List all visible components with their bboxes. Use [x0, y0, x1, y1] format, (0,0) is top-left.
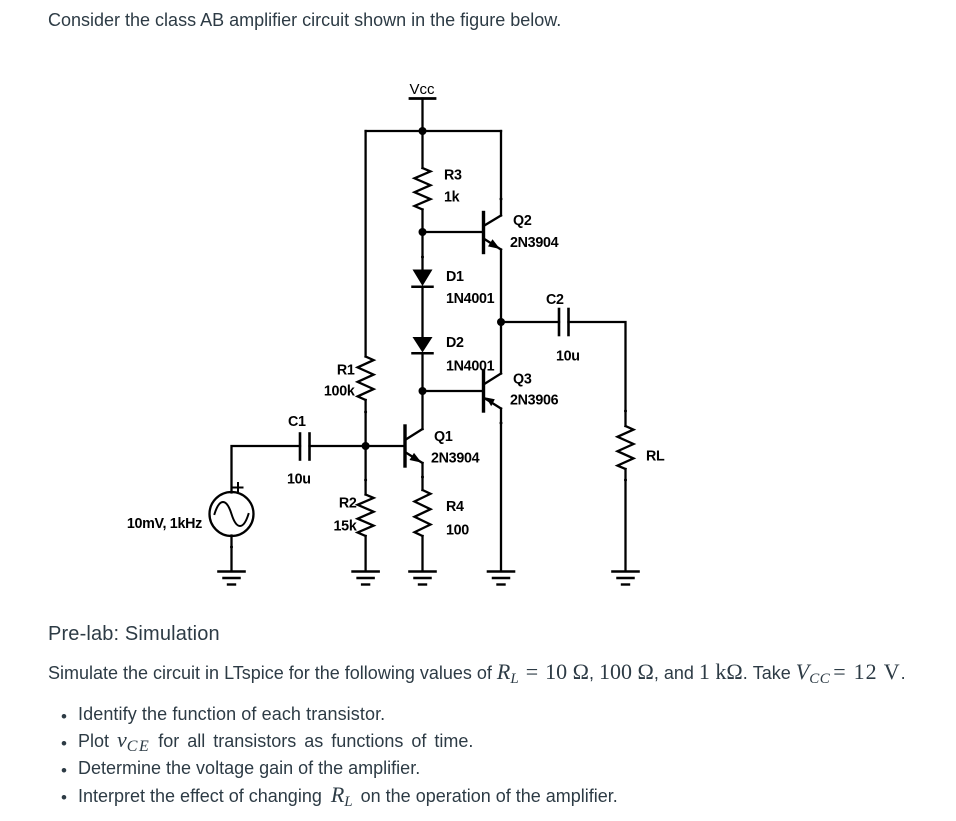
node bias lower (D2/Q3 base/Q1 collector) [419, 387, 427, 395]
wire RL to ground [624, 469, 626, 571]
wire lower bias node to Q1 collector [421, 391, 423, 429]
svg-text:15k: 15k [334, 519, 357, 535]
wire Vcc junction to R3 [421, 131, 423, 168]
capacitor C1 [287, 414, 311, 488]
svg-text:R1: R1 [337, 363, 355, 379]
svg-text:R2: R2 [339, 496, 357, 512]
svg-text:1N4001: 1N4001 [446, 291, 495, 307]
resistor RL [618, 426, 666, 469]
wire source to C1 [232, 446, 301, 493]
svg-text:1N4001: 1N4001 [446, 359, 495, 375]
paragraph Simulate the circuit [48, 661, 906, 683]
ground below R4 [410, 572, 436, 585]
title paragraph [48, 11, 561, 29]
wire source to ground [230, 536, 232, 572]
wire D2 to lower bias node [421, 353, 423, 391]
resistor R1 [324, 357, 374, 401]
wire R4 to ground [421, 536, 423, 571]
wire R1 to input node [364, 400, 366, 446]
svg-text:2N3904: 2N3904 [510, 235, 559, 251]
ground below R2 [353, 572, 379, 585]
resistor R3 [415, 168, 463, 210]
plus sign of source [234, 483, 243, 492]
wire R3 to bias node [421, 210, 423, 233]
wire Q2 emitter to output node [500, 250, 502, 323]
wire output node to Q3 emitter [500, 322, 502, 374]
diode D2 [413, 335, 495, 375]
ground below source [219, 572, 245, 585]
svg-text:1k: 1k [444, 190, 460, 206]
node Vcc rail junction [419, 127, 427, 135]
capacitor C2 [546, 292, 580, 365]
svg-text:10mV, 1kHz: 10mV, 1kHz [127, 516, 202, 532]
transistor Q2 2N3904 [484, 213, 559, 253]
wire left drop to R1 [364, 131, 366, 357]
svg-text:2N3904: 2N3904 [431, 451, 480, 467]
node bias upper (R3/D1/Q2 base) [419, 228, 427, 236]
node output [497, 318, 505, 326]
svg-text:Q2: Q2 [513, 213, 532, 229]
wire C2 to RL corner [569, 322, 626, 426]
wire R2 to ground [364, 536, 366, 571]
source V1 10mV 1kHz [127, 492, 254, 536]
svg-text:Q3: Q3 [513, 372, 532, 388]
wire output node to C2 [501, 321, 559, 323]
wire Q3 base [423, 390, 484, 392]
svg-text:100k: 100k [324, 384, 355, 400]
svg-text:C1: C1 [288, 414, 306, 430]
svg-text:10u: 10u [556, 349, 580, 365]
wire D1 to D2 [421, 287, 423, 337]
wire top rail [366, 130, 501, 132]
wire input node to R2 [364, 446, 366, 495]
heading Pre-lab: Simulation [48, 624, 220, 644]
wire Q2 base [423, 231, 484, 233]
svg-text:D1: D1 [446, 269, 464, 285]
svg-text:D2: D2 [446, 335, 464, 351]
svg-text:100: 100 [446, 523, 469, 539]
svg-text:Q1: Q1 [434, 429, 453, 445]
ground below Q3 [488, 572, 514, 585]
transistor Q1 2N3904 [366, 426, 480, 467]
resistor R2 [334, 495, 374, 537]
diode D1 [413, 269, 495, 307]
svg-text:R3: R3 [444, 168, 462, 184]
wire Q3 collector to ground [500, 409, 502, 572]
wire bias node to D1 [421, 232, 423, 270]
bullet list [61, 708, 67, 725]
resistor R4 [415, 490, 470, 539]
wire C1 to input node [310, 445, 366, 447]
svg-text:RL: RL [646, 449, 665, 465]
wire Vcc stem [421, 99, 423, 132]
power symbol Vcc [409, 81, 435, 99]
node input (C1/R1/R2/Q1 base) [362, 442, 370, 450]
svg-text:2N3906: 2N3906 [510, 393, 559, 409]
wire Q2 collector to top rail [500, 131, 502, 216]
transistor Q3 2N3906 [484, 371, 559, 411]
svg-text:R4: R4 [446, 499, 464, 515]
svg-text:C2: C2 [546, 292, 564, 308]
wire Q1 emitter to R4 [421, 463, 423, 490]
svg-text:Vcc: Vcc [409, 81, 435, 98]
svg-text:10u: 10u [287, 472, 311, 488]
pin tick marks [230, 198, 627, 549]
ground below RL [613, 572, 639, 585]
